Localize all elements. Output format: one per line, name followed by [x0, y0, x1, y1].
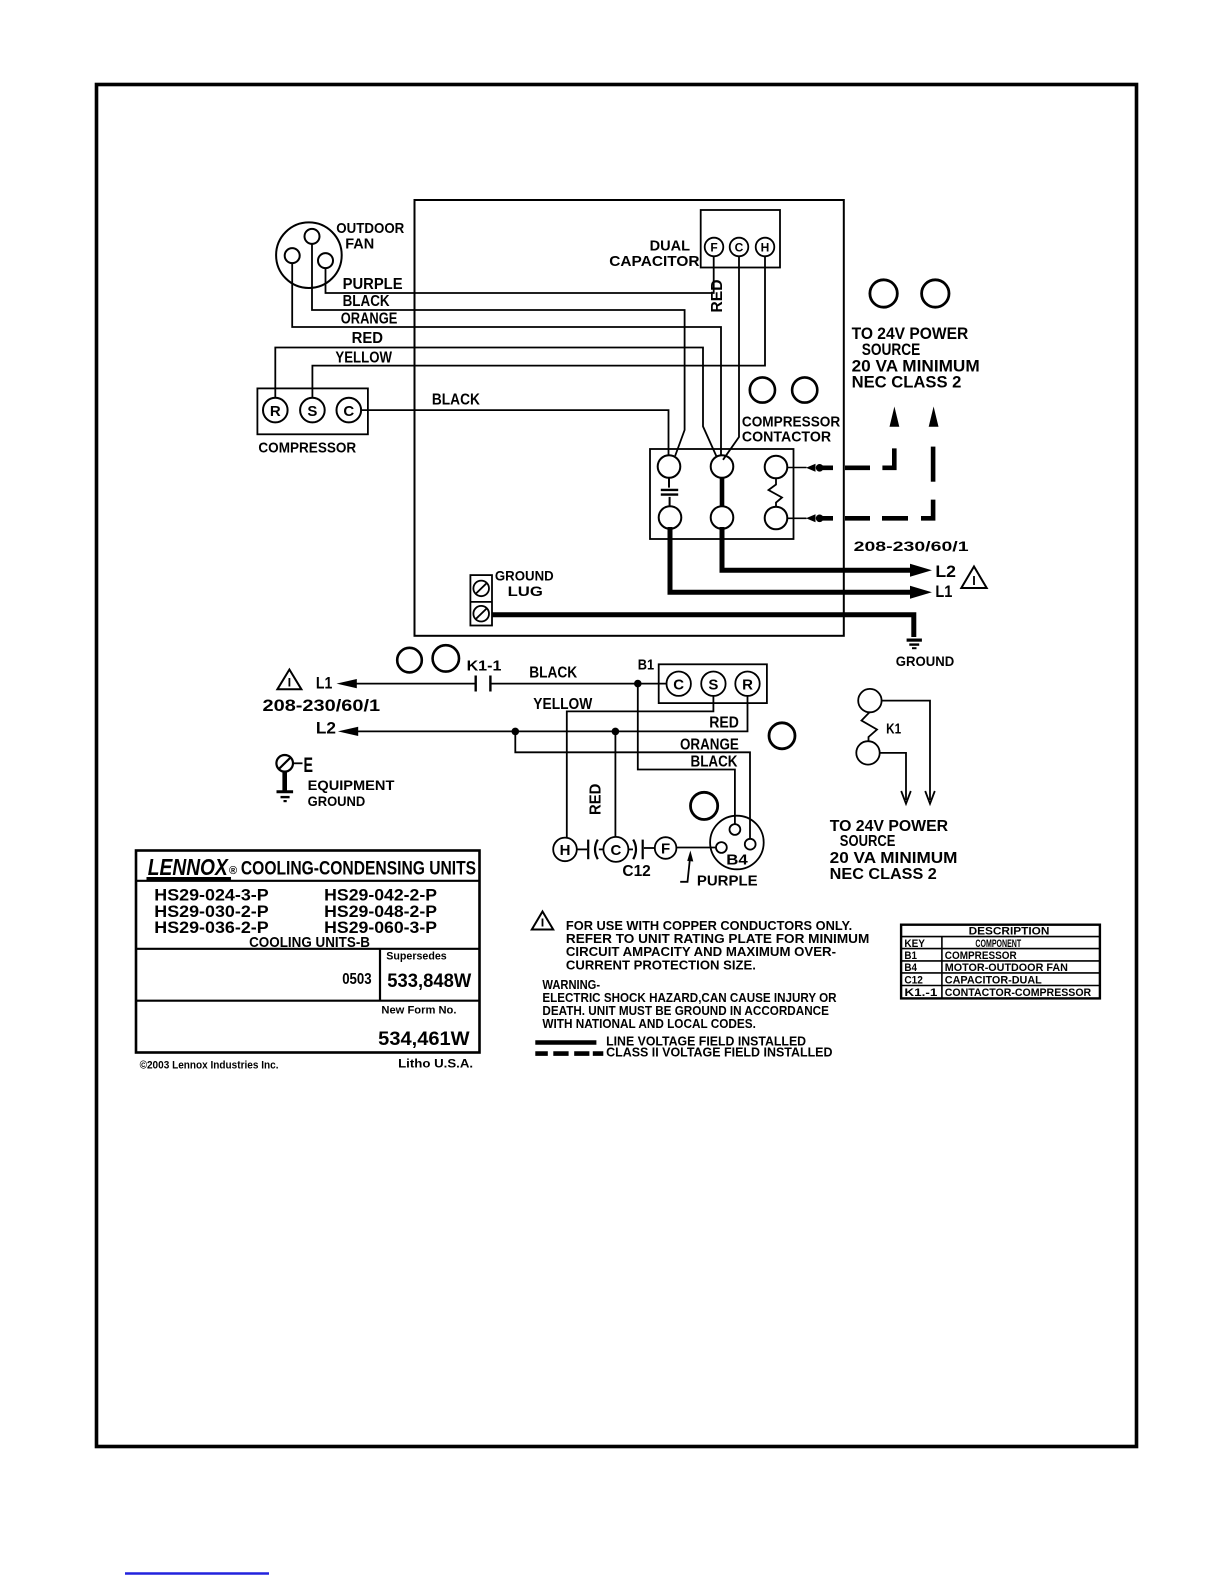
- C12 terminal F: [655, 837, 677, 859]
- copyright line: [140, 1060, 279, 1072]
- svg-text:0503: 0503: [342, 971, 371, 988]
- table row B1: [904, 950, 1016, 962]
- svg-text:RED: RED: [709, 715, 739, 732]
- note warning electric shock: [542, 977, 837, 1031]
- up arrow row1: [890, 407, 900, 427]
- ground lug screw top: [473, 581, 489, 597]
- legend line voltage: [606, 1033, 806, 1048]
- B1 terminal R: [735, 672, 759, 696]
- svg-text:COOLING UNITS-B: COOLING UNITS-B: [249, 934, 370, 951]
- label L1: [935, 582, 952, 601]
- contactor terminal bottom-mid: [711, 506, 734, 529]
- svg-text:YELLOW: YELLOW: [533, 696, 593, 713]
- dual capacitor box: [701, 210, 780, 268]
- terminal C: [337, 398, 362, 423]
- svg-text:K1: K1: [886, 720, 901, 737]
- label BLACK (lower): [691, 754, 738, 771]
- label RED (vertical lower): [588, 784, 605, 815]
- label L2: [935, 562, 956, 581]
- svg-text:H: H: [761, 241, 770, 255]
- label OUTDOOR FAN: [336, 220, 404, 252]
- svg-text:R: R: [270, 403, 281, 420]
- svg-text:WITH NATIONAL AND LOCAL CODES.: WITH NATIONAL AND LOCAL CODES.: [542, 1016, 756, 1031]
- svg-text:GROUND: GROUND: [495, 567, 554, 583]
- contactor coil zigzag (right pole): [769, 478, 783, 506]
- svg-text:F: F: [710, 241, 717, 255]
- label GROUND LUG: [495, 567, 554, 599]
- wire ground (thick): [492, 615, 914, 637]
- purple leader arrow: [680, 851, 693, 882]
- equipment ground symbol: [277, 772, 294, 802]
- wire black B1 C to B4 top pin: [638, 684, 735, 825]
- ground lug screw bottom: [473, 606, 489, 622]
- svg-text:H: H: [560, 842, 571, 859]
- table row B4: [904, 962, 1068, 974]
- svg-text:K1.-1: K1.-1: [904, 987, 937, 999]
- wire black K1-1 to B1 C: [490, 683, 666, 685]
- terminal R: [263, 398, 288, 423]
- svg-text:C: C: [735, 241, 744, 255]
- svg-text:E: E: [304, 754, 314, 777]
- label E: [304, 754, 314, 777]
- svg-text:MOTOR-OUTDOOR FAN: MOTOR-OUTDOOR FAN: [945, 962, 1068, 974]
- C12 terminal C: [603, 837, 628, 862]
- stub wire from contactor top-right: [787, 467, 806, 469]
- svg-text:534,461W: 534,461W: [378, 1029, 469, 1050]
- wire black: compressor C to contactor top-left: [361, 410, 668, 455]
- svg-text:NEC CLASS 2: NEC CLASS 2: [830, 866, 937, 883]
- svg-text:RED: RED: [352, 330, 383, 347]
- junction node L2/orange: [512, 728, 520, 736]
- svg-text:ORANGE: ORANGE: [341, 310, 398, 327]
- label B4: [726, 852, 748, 869]
- label YELLOW: [335, 350, 392, 367]
- label YELLOW (lower): [533, 696, 593, 713]
- label L1 (left): [316, 674, 332, 693]
- label BLACK (K1-1 wire): [529, 665, 577, 682]
- label COMPRESSOR CONTACTOR: [742, 413, 840, 445]
- wire yellow: compressor S to capacitor H: [312, 257, 765, 398]
- svg-text:DESCRIPTION: DESCRIPTION: [969, 926, 1050, 938]
- label L2 (left): [316, 718, 336, 737]
- B1 terminal S: [701, 672, 725, 696]
- value 0503: [342, 971, 371, 988]
- warning triangle (L1 left): [277, 670, 301, 690]
- wire red L2 to C12 C: [614, 731, 616, 837]
- circle above B4: [691, 792, 718, 819]
- compressor terminal box: [257, 388, 368, 434]
- label TO 24V POWER SOURCE (upper): [852, 324, 980, 392]
- terminal S: [300, 398, 325, 423]
- wire orange: fan left pin to contactor top-mid: [292, 263, 721, 454]
- B1 terminal C: [667, 672, 691, 696]
- svg-text:BLACK: BLACK: [343, 293, 390, 310]
- label B1: [638, 656, 654, 673]
- svg-text:PURPLE: PURPLE: [697, 872, 758, 889]
- svg-text:HS29-048-2-P: HS29-048-2-P: [324, 903, 437, 921]
- svg-text:LENNOX: LENNOX: [148, 854, 229, 880]
- svg-text:208-230/60/1: 208-230/60/1: [263, 696, 381, 715]
- class II dashed wire row2: [822, 447, 933, 519]
- ground lug box: [470, 575, 492, 625]
- title COOLING-CONDENSING UNITS: [241, 858, 476, 879]
- label EQUIPMENT GROUND: [308, 777, 395, 809]
- svg-text:RED: RED: [588, 784, 605, 815]
- wire K1 bottom to 24V: [880, 753, 911, 804]
- table row C12: [904, 975, 1042, 987]
- unit enclosure box: [415, 200, 844, 636]
- wire red: capacitor C to contactor top-mid: [723, 257, 739, 460]
- label RED: [352, 330, 383, 347]
- label BLACK: [343, 293, 390, 310]
- C12 capacitor plates H-C: [577, 840, 603, 860]
- table header KEY / COMPONENT: [904, 938, 1021, 950]
- L2 arrowhead: [910, 564, 932, 577]
- label RED (B1 wire): [709, 715, 739, 732]
- left arrowhead row2: [806, 514, 816, 522]
- svg-text:S: S: [307, 403, 317, 420]
- svg-text:F: F: [661, 841, 670, 858]
- svg-text:COMPONENT: COMPONENT: [975, 938, 1021, 950]
- svg-text:GROUND: GROUND: [308, 793, 366, 809]
- capacitor terminal F: [705, 238, 724, 257]
- capacitor terminal C: [730, 238, 749, 257]
- LENNOX logo: [147, 854, 238, 880]
- label K1: [886, 720, 901, 737]
- B4 fan motor: [710, 816, 764, 870]
- svg-text:EQUIPMENT: EQUIPMENT: [308, 777, 395, 793]
- value 534,461W: [378, 1029, 469, 1050]
- svg-text:Supersedes: Supersedes: [386, 950, 446, 962]
- label ORANGE (lower): [680, 737, 739, 754]
- svg-text:20 VA MINIMUM: 20 VA MINIMUM: [830, 850, 958, 867]
- svg-text:K1-1: K1-1: [467, 658, 502, 675]
- contactor capacitor element (left pole): [661, 478, 678, 506]
- label TO 24V POWER SOURCE (lower): [830, 818, 958, 883]
- capacitor terminal H: [756, 238, 775, 257]
- svg-text:C: C: [610, 842, 621, 859]
- svg-text:L2: L2: [316, 718, 336, 737]
- wire orange L2 to B4 right pin: [515, 731, 750, 838]
- svg-text:CURRENT PROTECTION SIZE.: CURRENT PROTECTION SIZE.: [566, 957, 756, 972]
- label ORANGE: [341, 310, 398, 327]
- svg-text:ORANGE: ORANGE: [680, 737, 739, 754]
- wire red: compressor R to contactor top-mid: [275, 348, 716, 457]
- up arrow row2: [929, 407, 939, 427]
- circles left of K1-1: [397, 645, 459, 672]
- contactor terminal top-mid: [711, 455, 734, 478]
- svg-text:GROUND: GROUND: [896, 653, 954, 669]
- svg-text:B1: B1: [638, 656, 654, 673]
- label PURPLE: [343, 276, 403, 293]
- B1 compressor terminal box: [659, 664, 767, 703]
- svg-text:COMPRESSOR: COMPRESSOR: [945, 950, 1017, 962]
- contactor terminal bottom-left: [659, 506, 682, 529]
- class II dashed wire row1: [822, 448, 894, 467]
- junction bullet row1: [816, 464, 824, 472]
- K1 contactor coil bottom: [856, 741, 879, 764]
- svg-text:BLACK: BLACK: [691, 754, 738, 771]
- legend class II voltage: [606, 1044, 832, 1059]
- L1 left arrowhead: [337, 679, 357, 688]
- contactor contact bar (mid pole): [720, 478, 725, 506]
- svg-text:CLASS II VOLTAGE FIELD INSTALL: CLASS II VOLTAGE FIELD INSTALLED: [606, 1044, 832, 1059]
- label C12: [622, 863, 650, 880]
- label PURPLE (B4 wire): [697, 872, 758, 889]
- table row K1.-1: [904, 987, 1091, 999]
- label 208-230/60/1 (upper): [854, 538, 969, 554]
- left arrowhead row1: [806, 464, 816, 472]
- equipment ground screw: [276, 755, 293, 772]
- L1 arrowhead: [910, 586, 932, 599]
- label BLACK (compressor wire): [432, 392, 480, 409]
- label COMPRESSOR: [258, 439, 356, 456]
- contactor terminal bottom-right: [765, 507, 788, 530]
- model numbers: [154, 887, 437, 938]
- svg-text:®: ®: [229, 865, 237, 877]
- svg-text:BLACK: BLACK: [432, 392, 480, 409]
- page border frame: [97, 85, 1137, 1447]
- outdoor fan motor: [276, 222, 342, 288]
- stub wire from contactor bottom-right: [787, 517, 806, 519]
- junction node at B1: [634, 680, 642, 688]
- svg-text:S: S: [708, 676, 718, 693]
- svg-text:NEC CLASS 2: NEC CLASS 2: [852, 372, 962, 391]
- K1 coil zigzag: [862, 712, 878, 741]
- svg-text:L2: L2: [935, 562, 956, 581]
- wire black: fan top pin to contactor top-left: [312, 244, 685, 456]
- svg-text:C12: C12: [622, 863, 650, 880]
- svg-text:HS29-024-3-P: HS29-024-3-P: [154, 887, 268, 905]
- value 533,848W: [387, 971, 471, 992]
- wire purple: fan right pin to capacitor F: [326, 257, 714, 293]
- Lennox title block box: [136, 851, 480, 1053]
- circles upper-right pair: [870, 280, 949, 307]
- compressor contactor box: [650, 449, 794, 539]
- svg-text:CAPACITOR: CAPACITOR: [609, 253, 699, 270]
- label 208-230/60/1 (left): [263, 696, 381, 715]
- label COOLING UNITS-B: [249, 934, 370, 951]
- svg-text:C12: C12: [904, 975, 923, 987]
- label GROUND: [896, 653, 954, 669]
- label K1-1: [467, 658, 502, 675]
- wire L1 to K1-1 contact: [350, 683, 476, 685]
- wire K1 top to 24V: [882, 701, 935, 804]
- label Supersedes: [386, 950, 446, 962]
- K1 contactor coil top: [858, 689, 881, 712]
- svg-text:RED: RED: [709, 280, 726, 313]
- svg-text:208-230/60/1: 208-230/60/1: [854, 538, 969, 554]
- L2 left arrowhead: [338, 727, 358, 736]
- contactor terminal top-left: [658, 455, 681, 478]
- table header DESCRIPTION: [969, 926, 1050, 938]
- svg-text:COOLING-CONDENSING UNITS: COOLING-CONDENSING UNITS: [241, 858, 476, 879]
- wire screw to E: [293, 762, 303, 764]
- contactor terminal top-right: [765, 456, 788, 479]
- label Litho U.S.A.: [398, 1059, 473, 1071]
- svg-text:R: R: [742, 676, 753, 693]
- circles above contactor: [750, 377, 818, 402]
- key table box: [901, 925, 1100, 999]
- C12 terminal H: [553, 838, 577, 862]
- junction node L2/red: [612, 728, 620, 736]
- wire purple C12 F to B4 left pin: [677, 847, 717, 849]
- junction bullet row2: [816, 515, 824, 523]
- svg-text:HS29-042-2-P: HS29-042-2-P: [324, 887, 437, 905]
- svg-text:B4: B4: [726, 852, 748, 869]
- svg-text:HS29-030-2-P: HS29-030-2-P: [154, 903, 268, 921]
- svg-text:FAN: FAN: [345, 235, 374, 252]
- svg-text:New Form No.: New Form No.: [381, 1004, 456, 1016]
- svg-text:C: C: [673, 676, 684, 693]
- svg-text:Litho U.S.A.: Litho U.S.A.: [398, 1059, 473, 1071]
- svg-text:KEY: KEY: [904, 938, 925, 950]
- svg-text:C: C: [343, 403, 354, 420]
- svg-text:533,848W: 533,848W: [387, 971, 471, 992]
- legend solid line sample: [535, 1040, 596, 1045]
- svg-text:CAPACITOR-DUAL: CAPACITOR-DUAL: [945, 975, 1042, 987]
- warning triangle (notes): [532, 912, 553, 930]
- svg-text:YELLOW: YELLOW: [335, 350, 392, 367]
- circle right of L2 line: [769, 723, 795, 749]
- wire L2 line voltage (thick): [722, 527, 912, 570]
- label DUAL CAPACITOR: [609, 238, 699, 270]
- legend dashed line sample: [535, 1051, 603, 1056]
- svg-text:COMPRESSOR: COMPRESSOR: [258, 439, 356, 456]
- svg-text:B4: B4: [904, 962, 917, 974]
- label New Form No.: [381, 1004, 456, 1016]
- svg-text:CONTACTOR: CONTACTOR: [742, 428, 831, 445]
- svg-text:SOURCE: SOURCE: [840, 833, 896, 850]
- wire yellow B1 S to C12 H: [567, 696, 714, 838]
- C12 capacitor plates C-F: [629, 840, 655, 860]
- svg-text:©2003 Lennox Industries Inc.: ©2003 Lennox Industries Inc.: [140, 1060, 279, 1072]
- svg-text:PURPLE: PURPLE: [343, 276, 403, 293]
- K1-1 contact: [476, 676, 491, 692]
- warning triangle (L2): [961, 567, 986, 589]
- svg-text:CONTACTOR-COMPRESSOR: CONTACTOR-COMPRESSOR: [945, 987, 1091, 999]
- ground symbol: [907, 640, 922, 648]
- svg-text:L1: L1: [316, 674, 332, 693]
- svg-text:B1: B1: [904, 950, 917, 962]
- blue underline mark bottom-left: [125, 1572, 269, 1574]
- svg-text:LUG: LUG: [508, 583, 543, 599]
- wire L1 line voltage (thick): [670, 527, 912, 592]
- svg-text:L1: L1: [935, 582, 952, 601]
- note copper conductors: [566, 918, 869, 973]
- svg-text:BLACK: BLACK: [529, 665, 577, 682]
- label RED (vertical): [709, 280, 726, 313]
- wire red L2 to B1 R: [351, 696, 748, 732]
